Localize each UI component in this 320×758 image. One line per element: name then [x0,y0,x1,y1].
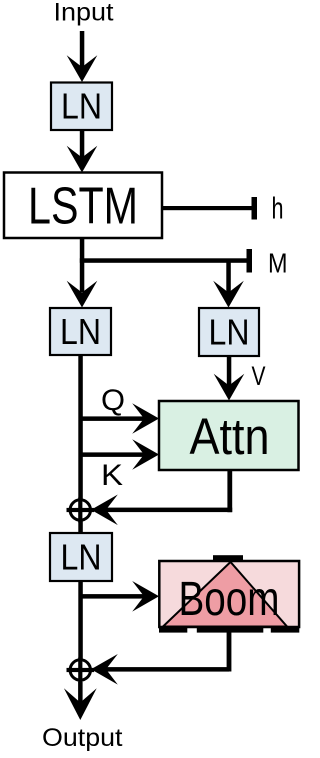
wire M branch down to LN right [213,261,244,308]
block LN right (layer norm) [199,308,259,356]
svg-text:Q: Q [101,384,125,417]
wire V arrow into Attn [214,356,245,401]
wire Attn feedback to plus1 [91,470,232,525]
block LN3 (layer norm) [50,533,112,581]
arrowhead into LN left [67,281,98,308]
wire Boom feedback to plus2 [91,632,231,685]
wire K arrow [81,439,160,470]
svg-text:LN: LN [60,311,101,352]
wire trunk LN3 to plus2 [78,581,83,661]
svg-text:LN: LN [209,312,250,353]
svg-text:Attn: Attn [190,408,270,465]
svg-text:h: h [272,191,284,226]
block LN1 (layer norm) [51,83,112,131]
svg-text:LSTM: LSTM [28,178,138,236]
svg-text:LN: LN [61,537,102,578]
block LN left (layer norm) [50,308,111,355]
wire Q arrow [81,403,160,434]
svg-text:M: M [268,248,288,279]
svg-text:Boom: Boom [179,573,280,626]
svg-text:LN: LN [61,86,102,127]
node plus1 (residual add) [67,498,95,523]
wire LSTM down trunk [80,238,85,292]
node plus2 (residual add) [67,658,95,683]
wire left trunk LN to plus1 [78,355,83,533]
wire branch to Boom [81,581,160,612]
wire memory M horizontal [80,249,252,273]
svg-text:Input: Input [54,0,114,27]
svg-text:K: K [101,459,123,492]
svg-text:V: V [252,361,266,391]
block Attn (attention) [159,401,299,470]
block LSTM [4,173,162,239]
wire plus2 to Output [64,682,97,720]
wire Input to LN1 [67,31,98,82]
block Boom (feed forward) [159,555,299,632]
wire LN1 to LSTM [67,130,98,173]
svg-text:Output: Output [42,724,123,752]
wire h output [162,197,257,220]
